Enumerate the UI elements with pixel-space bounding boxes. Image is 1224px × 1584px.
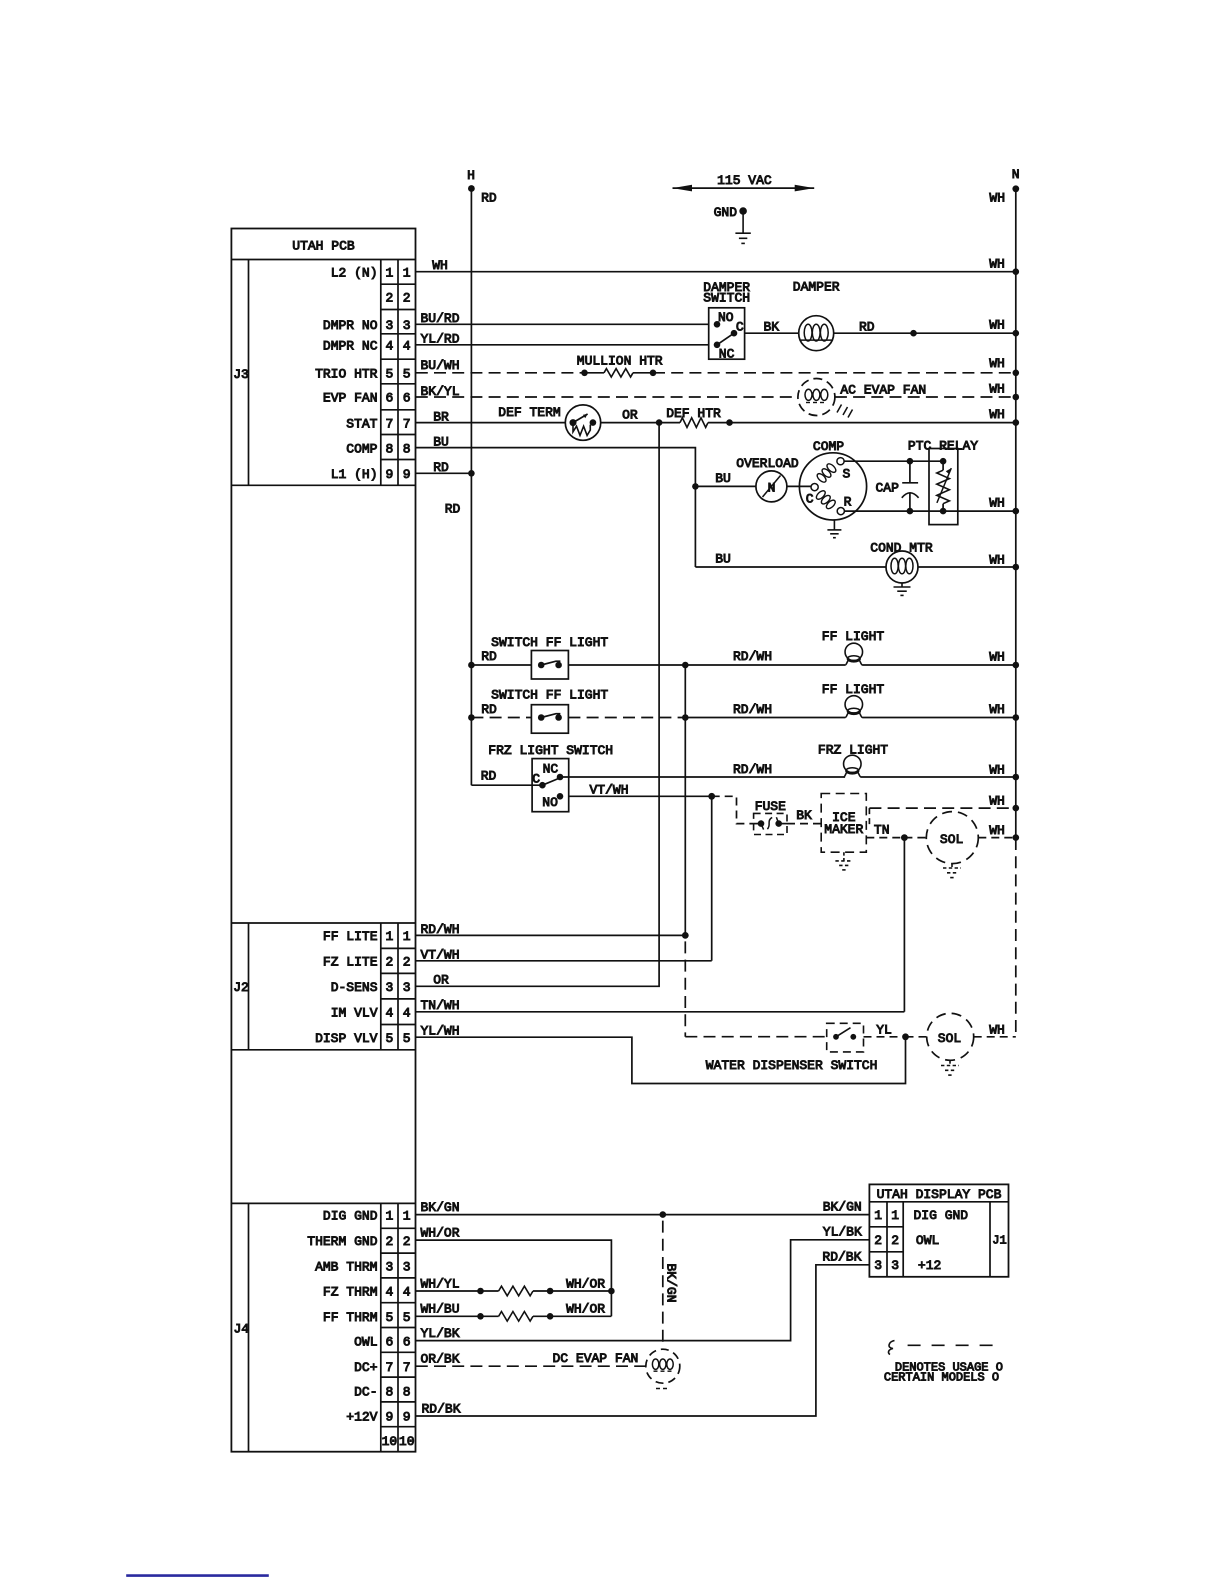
svg-text:EVP FAN: EVP FAN	[323, 391, 378, 406]
svg-text:THERM GND: THERM GND	[307, 1234, 377, 1249]
svg-text:WH/BU: WH/BU	[420, 1302, 459, 1317]
svg-text:DC EVAP FAN: DC EVAP FAN	[552, 1351, 638, 1366]
svg-text:2: 2	[403, 1234, 411, 1249]
svg-text:5: 5	[385, 1031, 393, 1046]
svg-text:RD: RD	[445, 502, 461, 517]
svg-text:5: 5	[403, 1031, 411, 1046]
svg-text:STAT: STAT	[346, 416, 377, 431]
svg-text:2: 2	[385, 1234, 393, 1249]
svg-text:6: 6	[385, 1334, 393, 1349]
svg-text:WH/OR: WH/OR	[566, 1276, 605, 1291]
svg-text:WH: WH	[989, 823, 1005, 838]
svg-text:RD/BK: RD/BK	[421, 1401, 460, 1416]
svg-text:BU/RD: BU/RD	[420, 311, 459, 326]
svg-text:PTC RELAY: PTC RELAY	[908, 438, 978, 453]
svg-text:WH: WH	[989, 794, 1005, 809]
svg-text:RD/BK: RD/BK	[822, 1250, 861, 1265]
svg-text:4: 4	[403, 339, 411, 354]
svg-text:DISP VLV: DISP VLV	[315, 1031, 378, 1046]
svg-text:BK/GN: BK/GN	[823, 1200, 862, 1215]
svg-text:RD/WH: RD/WH	[420, 922, 459, 937]
svg-text:SOL: SOL	[940, 832, 963, 847]
svg-text:1: 1	[385, 1208, 393, 1223]
svg-text:2: 2	[874, 1233, 882, 1248]
svg-text:OVERLOAD: OVERLOAD	[736, 456, 799, 471]
svg-text:H: H	[467, 168, 475, 183]
svg-text:3: 3	[403, 1259, 411, 1274]
svg-text:DMPR NO: DMPR NO	[323, 318, 378, 333]
svg-text:COND MTR: COND MTR	[870, 540, 933, 555]
svg-text:BK/GN: BK/GN	[664, 1263, 679, 1302]
svg-text:FF LIGHT: FF LIGHT	[822, 629, 885, 644]
svg-text:WH: WH	[989, 763, 1005, 778]
svg-text:WH: WH	[989, 356, 1005, 371]
svg-text:1: 1	[891, 1208, 899, 1223]
svg-text:9: 9	[403, 1410, 411, 1425]
svg-text:WH/OR: WH/OR	[420, 1226, 459, 1241]
svg-text:2: 2	[403, 955, 411, 970]
svg-text:R: R	[844, 495, 852, 510]
svg-text:WH: WH	[989, 318, 1005, 333]
svg-text:WH/OR: WH/OR	[566, 1302, 605, 1317]
svg-text:IM VLV: IM VLV	[331, 1006, 378, 1021]
svg-text:5: 5	[385, 367, 393, 382]
svg-text:BK/YL: BK/YL	[420, 384, 459, 399]
svg-text:+12V: +12V	[346, 1410, 377, 1425]
svg-text:1: 1	[385, 929, 393, 944]
svg-text:FF LITE: FF LITE	[323, 929, 378, 944]
svg-text:RD: RD	[481, 190, 497, 205]
svg-text:DC+: DC+	[354, 1360, 378, 1375]
svg-text:2: 2	[385, 291, 393, 306]
svg-text:C: C	[736, 320, 744, 335]
svg-text:COMP: COMP	[813, 439, 844, 454]
svg-text:1: 1	[403, 265, 411, 280]
svg-text:S: S	[842, 467, 850, 482]
svg-text:2: 2	[403, 291, 411, 306]
svg-text:OR: OR	[622, 407, 638, 422]
svg-text:L2 (N): L2 (N)	[331, 265, 378, 280]
svg-text:RD/WH: RD/WH	[733, 649, 772, 664]
svg-text:SWITCH FF LIGHT: SWITCH FF LIGHT	[491, 688, 608, 703]
svg-text:N: N	[1012, 167, 1020, 182]
svg-text:COMP: COMP	[346, 441, 377, 456]
svg-text:8: 8	[385, 441, 393, 456]
svg-text:NC: NC	[719, 346, 735, 361]
svg-text:3: 3	[385, 318, 393, 333]
svg-text:BR: BR	[433, 409, 449, 424]
svg-text:OR/BK: OR/BK	[420, 1352, 459, 1367]
svg-text:VT/WH: VT/WH	[589, 783, 628, 798]
svg-text:BU: BU	[715, 551, 731, 566]
svg-text:FZ THRM: FZ THRM	[323, 1285, 378, 1300]
svg-text:3: 3	[403, 318, 411, 333]
svg-text:DIG GND: DIG GND	[323, 1208, 378, 1223]
svg-text:4: 4	[385, 339, 393, 354]
svg-text:5: 5	[403, 1310, 411, 1325]
svg-text:1: 1	[385, 265, 393, 280]
svg-text:5: 5	[385, 1310, 393, 1325]
svg-text:WH: WH	[989, 257, 1005, 272]
svg-text:DIG GND: DIG GND	[914, 1208, 969, 1223]
svg-text:3: 3	[891, 1258, 899, 1273]
svg-text:NC: NC	[543, 761, 559, 776]
svg-text:BK/GN: BK/GN	[420, 1200, 459, 1215]
svg-text:FUSE: FUSE	[755, 799, 786, 814]
svg-text:8: 8	[403, 1384, 411, 1399]
svg-text:CERTAIN MODELS O: CERTAIN MODELS O	[884, 1371, 999, 1385]
svg-text:WH: WH	[989, 191, 1005, 206]
svg-text:DEF HTR: DEF HTR	[666, 406, 721, 421]
svg-text:WATER DISPENSER SWITCH: WATER DISPENSER SWITCH	[706, 1058, 878, 1073]
svg-text:DC-: DC-	[354, 1384, 377, 1399]
svg-text:MAKER: MAKER	[824, 822, 863, 837]
svg-text:115 VAC: 115 VAC	[717, 173, 772, 188]
svg-text:OWL: OWL	[354, 1334, 377, 1349]
svg-text:8: 8	[385, 1384, 393, 1399]
svg-text:5: 5	[403, 367, 411, 382]
svg-text:RD/WH: RD/WH	[733, 702, 772, 717]
svg-text:1: 1	[874, 1208, 882, 1223]
svg-text:DMPR NC: DMPR NC	[323, 339, 378, 354]
svg-text:CAP: CAP	[875, 481, 899, 496]
svg-text:FRZ LIGHT: FRZ LIGHT	[818, 743, 888, 758]
svg-text:YL: YL	[876, 1023, 892, 1038]
svg-text:RD: RD	[481, 769, 497, 784]
svg-text:4: 4	[385, 1285, 393, 1300]
svg-text:7: 7	[403, 416, 411, 431]
svg-text:WH: WH	[989, 553, 1005, 568]
svg-text:4: 4	[403, 1006, 411, 1021]
svg-text:BU: BU	[433, 434, 449, 449]
svg-text:C: C	[532, 772, 540, 787]
svg-text:DEF TERM: DEF TERM	[498, 405, 560, 420]
svg-text:7: 7	[403, 1360, 411, 1375]
svg-text:C: C	[806, 492, 814, 507]
svg-text:BK: BK	[796, 808, 812, 823]
svg-text:SOL: SOL	[938, 1031, 961, 1046]
svg-text:+12: +12	[918, 1258, 941, 1273]
svg-text:3: 3	[403, 980, 411, 995]
svg-text:J3: J3	[233, 367, 249, 382]
svg-text:9: 9	[385, 1410, 393, 1425]
svg-text:BU/WH: BU/WH	[420, 358, 459, 373]
svg-text:J1: J1	[992, 1233, 1006, 1247]
svg-text:D-SENS: D-SENS	[331, 980, 378, 995]
svg-text:9: 9	[385, 467, 393, 482]
svg-text:YL/RD: YL/RD	[420, 332, 459, 347]
svg-text:UTAH DISPLAY PCB: UTAH DISPLAY PCB	[877, 1187, 1002, 1202]
svg-text:UTAH PCB: UTAH PCB	[292, 239, 355, 254]
svg-text:L1 (H): L1 (H)	[331, 467, 378, 482]
svg-text:WH/YL: WH/YL	[420, 1276, 459, 1291]
svg-text:10: 10	[399, 1434, 415, 1449]
svg-text:3: 3	[874, 1258, 882, 1273]
svg-text:AMB THRM: AMB THRM	[315, 1259, 377, 1274]
svg-text:SWITCH: SWITCH	[703, 291, 750, 306]
svg-text:AC EVAP FAN: AC EVAP FAN	[840, 383, 926, 398]
svg-text:J4: J4	[233, 1322, 249, 1337]
svg-text:4: 4	[403, 1285, 411, 1300]
svg-text:BU: BU	[715, 471, 731, 486]
svg-text:DAMPER: DAMPER	[793, 280, 840, 295]
svg-text:7: 7	[385, 416, 393, 431]
svg-text:RD: RD	[859, 320, 875, 335]
svg-text:WH: WH	[989, 702, 1005, 717]
svg-text:SWITCH FF LIGHT: SWITCH FF LIGHT	[491, 635, 608, 650]
svg-text:WH: WH	[989, 382, 1005, 397]
svg-text:J2: J2	[233, 980, 249, 995]
svg-text:YL/WH: YL/WH	[420, 1023, 459, 1038]
svg-text:RD/WH: RD/WH	[733, 762, 772, 777]
svg-text:3: 3	[385, 980, 393, 995]
svg-text:BK: BK	[763, 320, 779, 335]
svg-text:NO: NO	[718, 310, 734, 325]
svg-text:WH: WH	[432, 258, 448, 273]
svg-text:RD: RD	[481, 649, 497, 664]
svg-text:RD: RD	[481, 702, 497, 717]
svg-text:WH: WH	[989, 1023, 1005, 1038]
svg-text:MULLION HTR: MULLION HTR	[577, 354, 663, 369]
svg-text:9: 9	[403, 467, 411, 482]
svg-text:4: 4	[385, 1006, 393, 1021]
svg-text:3: 3	[385, 1259, 393, 1274]
svg-text:1: 1	[403, 1208, 411, 1223]
svg-text:2: 2	[891, 1233, 899, 1248]
svg-text:NO: NO	[542, 795, 558, 810]
svg-text:6: 6	[403, 391, 411, 406]
svg-text:YL/BK: YL/BK	[420, 1326, 459, 1341]
svg-text:FRZ LIGHT SWITCH: FRZ LIGHT SWITCH	[488, 743, 613, 758]
svg-text:1: 1	[403, 929, 411, 944]
svg-text:VT/WH: VT/WH	[420, 947, 459, 962]
svg-text:10: 10	[382, 1434, 398, 1449]
svg-text:YL/BK: YL/BK	[823, 1225, 862, 1240]
svg-text:OR: OR	[433, 973, 449, 988]
svg-text:FF LIGHT: FF LIGHT	[822, 682, 885, 697]
svg-text:WH: WH	[989, 407, 1005, 422]
svg-text:TRIO HTR: TRIO HTR	[315, 367, 378, 382]
svg-text:6: 6	[403, 1334, 411, 1349]
svg-text:RD: RD	[433, 460, 449, 475]
svg-text:WH: WH	[989, 650, 1005, 665]
svg-text:7: 7	[385, 1360, 393, 1375]
svg-text:2: 2	[385, 955, 393, 970]
svg-text:6: 6	[385, 391, 393, 406]
svg-text:TN: TN	[874, 823, 890, 838]
svg-text:GND: GND	[714, 205, 738, 220]
svg-text:OWL: OWL	[916, 1233, 939, 1248]
svg-text:WH: WH	[989, 495, 1005, 510]
svg-text:FF THRM: FF THRM	[323, 1310, 378, 1325]
svg-text:TN/WH: TN/WH	[420, 998, 459, 1013]
svg-text:FZ LITE: FZ LITE	[323, 955, 378, 970]
svg-text:8: 8	[403, 441, 411, 456]
